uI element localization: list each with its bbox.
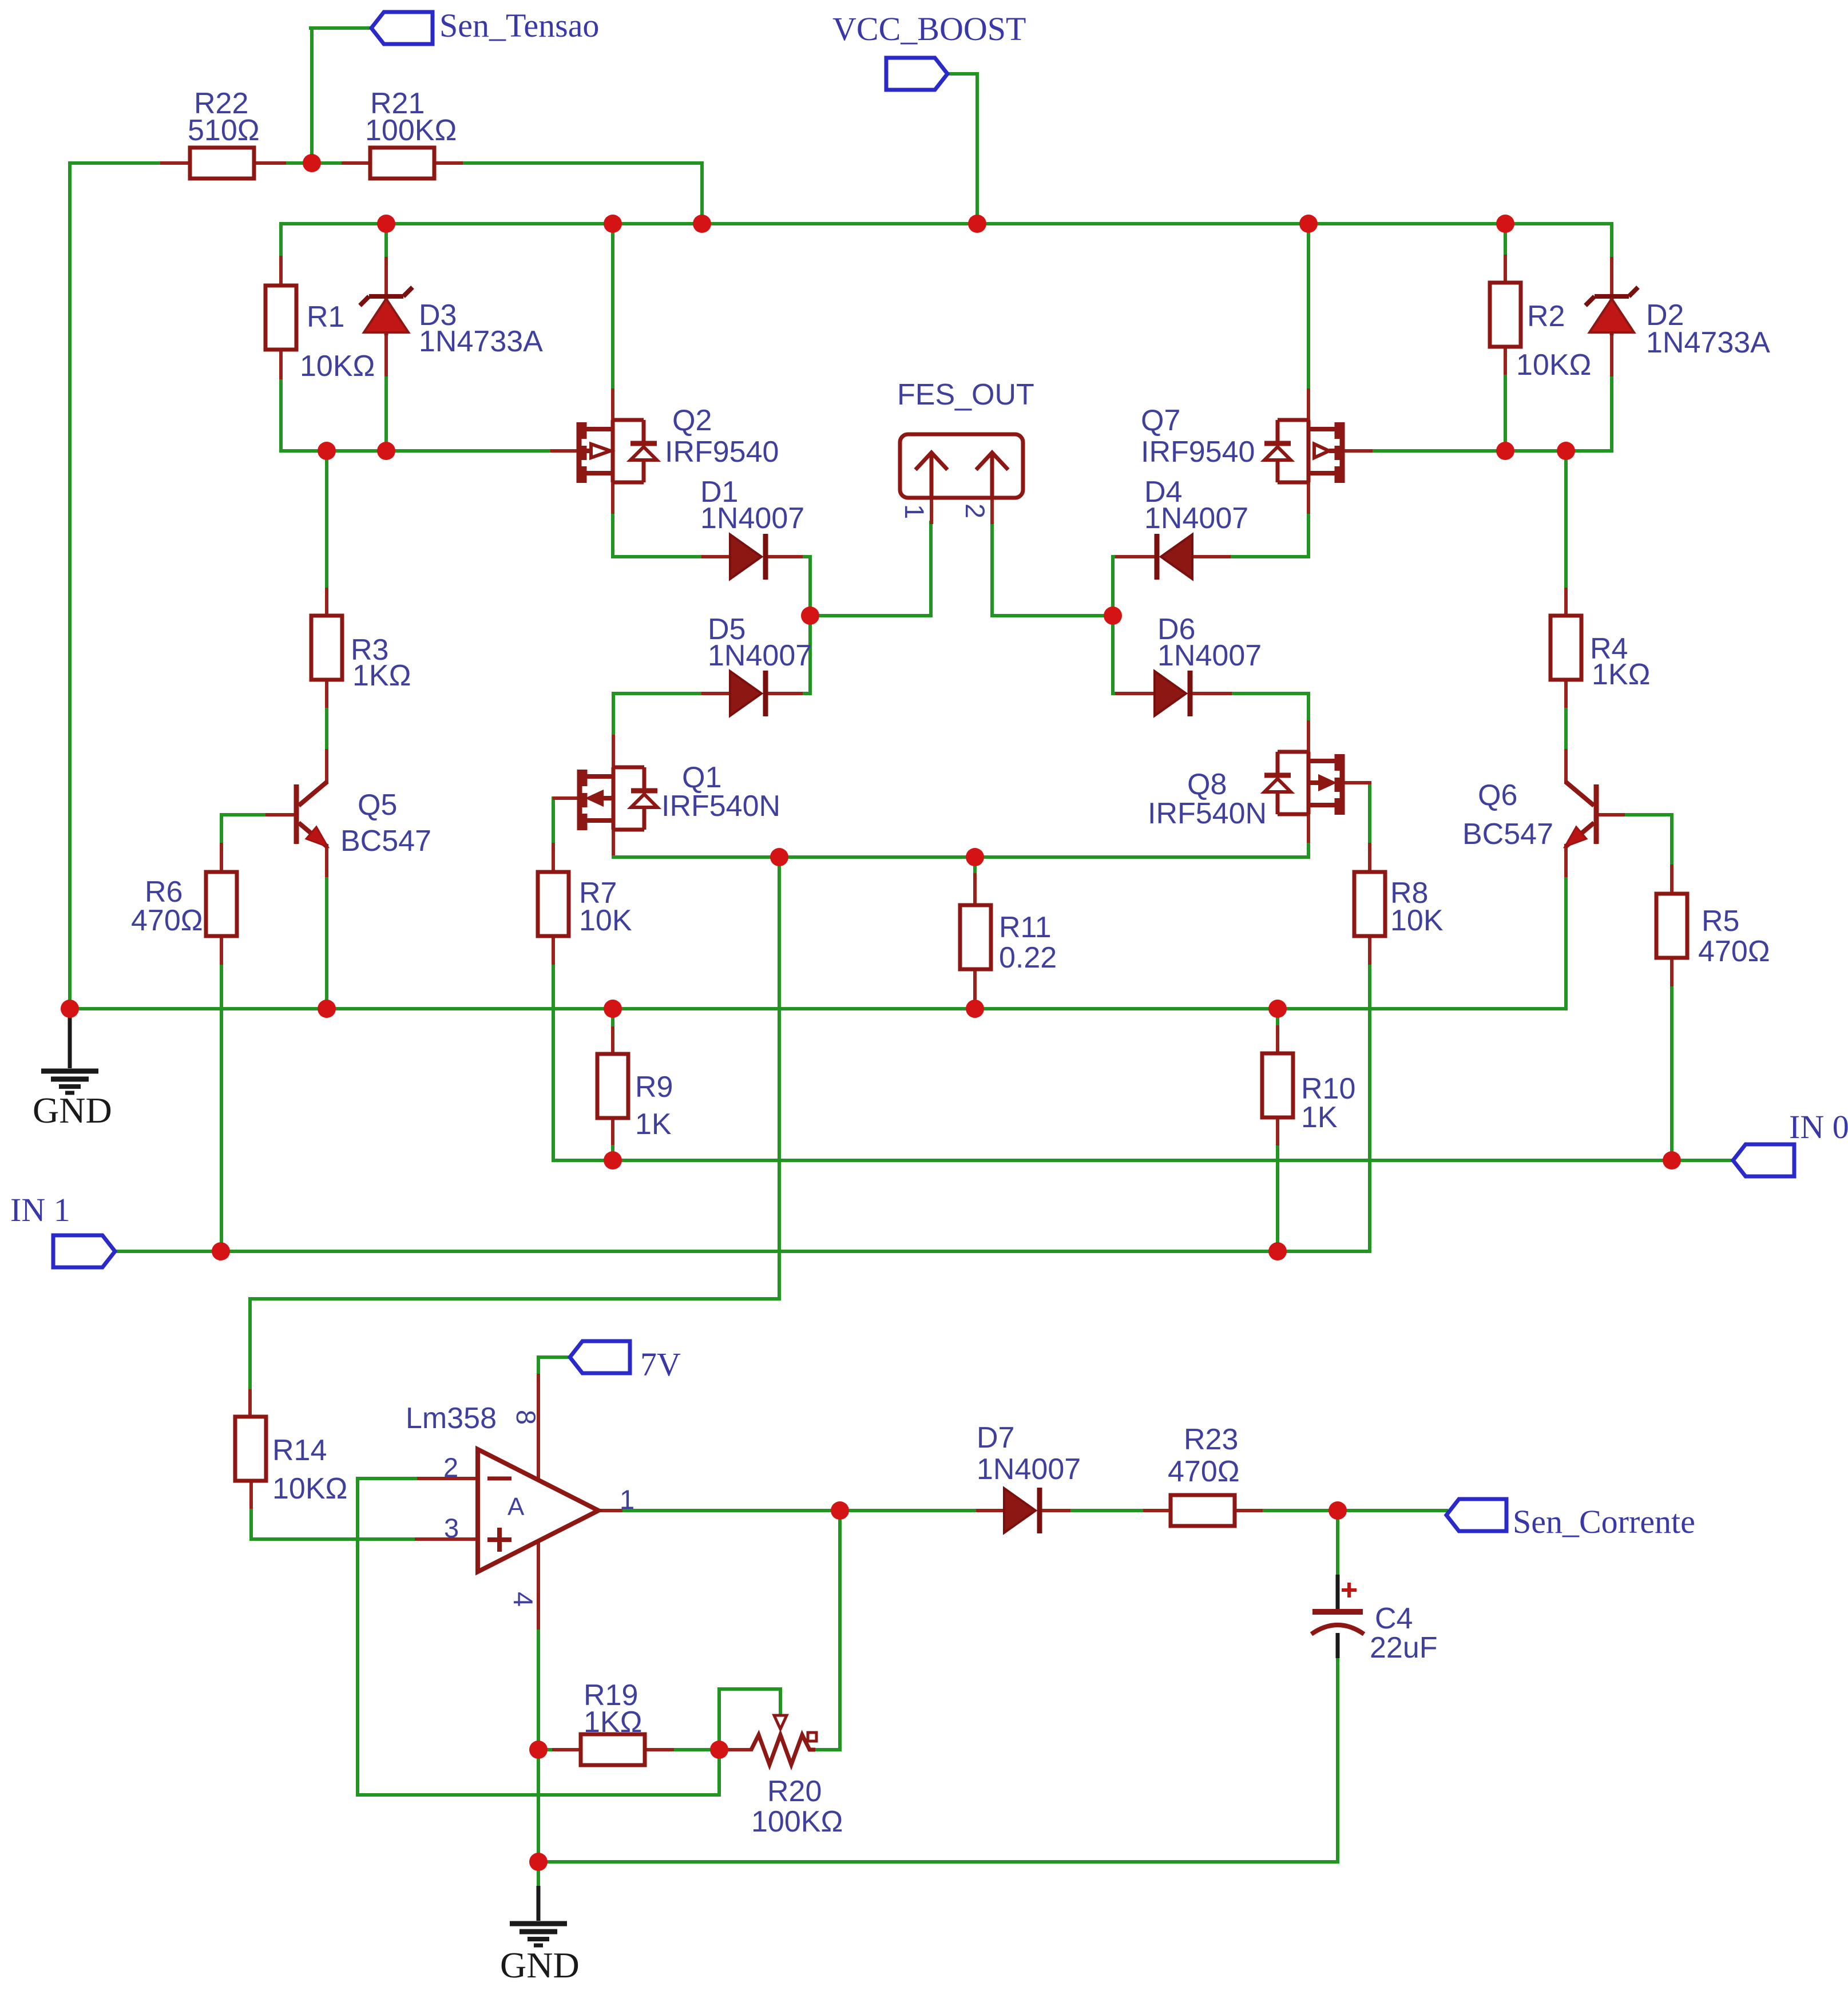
flag Sen_Corrente [1446,1499,1506,1531]
resistor R10 [1262,1053,1293,1117]
pin leads R8 [1368,845,1371,963]
resistor R21 [370,148,434,179]
svg-text:Q8: Q8 [1187,768,1227,801]
wire D6 cathode to Q8 drain [1192,693,1308,752]
flag IN 0 [1733,1144,1794,1176]
wire R22-R21 middle node [254,161,370,165]
wire IN0 rail [613,1159,1733,1162]
pin leads R22 [162,161,284,165]
wire Q5 base to R6 [221,815,267,871]
svg-text:1K: 1K [635,1108,672,1141]
resistor R19 [581,1734,645,1765]
node junction source bus sense [770,848,788,866]
wire R8 bottom riser [1368,936,1371,1251]
node B output right [1104,606,1122,625]
ground symbol bottom [510,1862,567,1945]
pin lead Q1 gate [554,796,577,800]
node junction gate rail R2 [1496,442,1514,460]
wire VCC_BOOST stub [947,74,977,224]
pin leads R7 [552,845,555,963]
wire D2 column [1610,224,1613,451]
pin leads R3 [325,589,328,706]
svg-text:510Ω: 510Ω [188,114,260,147]
pin leads Q1 [612,736,615,854]
svg-text:IRF9540: IRF9540 [1141,435,1255,469]
node junction GND bus R9 [604,1000,622,1018]
svg-text:R2: R2 [1527,300,1565,333]
node A output left [801,606,819,625]
node junction GND bus R10 [1268,1000,1287,1018]
transistor Q5 [296,782,328,847]
svg-text:Sen_Corrente: Sen_Corrente [1513,1503,1695,1540]
pin leads Q8 [1307,722,1310,841]
wire node B down to D6 [1113,616,1156,693]
ground symbol left [41,1009,98,1093]
wire C4 top [1336,1511,1339,1575]
svg-text:1KΩ: 1KΩ [584,1706,642,1739]
svg-text:VCC_BOOST: VCC_BOOST [832,10,1026,47]
node junction source bus R11 [966,848,984,866]
flag IN 1 [53,1235,115,1267]
pin leads R1 [279,257,283,378]
wire D1 cathode to node A [768,557,810,616]
node junction GND bottom [529,1853,548,1871]
pin leads R10 [1276,1027,1279,1144]
wire D4 cathode to node B [1113,557,1156,616]
node junction bus/Q7 [1299,215,1318,233]
node junction GND bus left [61,1000,79,1018]
svg-text:C4: C4 [1375,1602,1413,1635]
transistor Q6 [1565,782,1596,847]
node junction R19/R20 [710,1741,728,1759]
svg-text:4: 4 [508,1592,538,1607]
transistor Q8 [1264,752,1342,815]
svg-text:100KΩ: 100KΩ [365,114,457,147]
wire R14 bottom to pin3 [251,1480,417,1539]
wire sense tap down-left [250,857,779,1418]
svg-text:1N4007: 1N4007 [700,502,804,535]
wire R3 column [325,451,328,782]
svg-text:10K: 10K [1390,904,1443,937]
wire left gate rail [281,449,579,453]
diode D5 [730,671,766,716]
pin lead Q8 gate [1346,781,1370,784]
pin leads R23 [1145,1509,1261,1512]
svg-text:Q7: Q7 [1141,404,1180,437]
pin leads R11 [973,875,977,999]
pin lead R20 left [719,1748,751,1751]
svg-text:Lm358: Lm358 [406,1402,497,1435]
node junction output feedback [831,1501,849,1520]
wire Q5 emitter to GND bus [325,846,328,1009]
pin leads Q5 [267,751,327,875]
diode D7 [1004,1488,1040,1533]
svg-text:10KΩ: 10KΩ [300,350,375,383]
flag 7V [570,1341,630,1373]
svg-text:BC547: BC547 [340,824,431,858]
wire VCC top bus [281,222,1612,225]
zener diode D2 [1585,287,1638,335]
svg-text:10KΩ: 10KΩ [1516,348,1591,382]
svg-text:1N4007: 1N4007 [977,1453,1081,1486]
wire D5 anode to Q1 drain [613,693,730,767]
pin leads R14 [250,1391,251,1507]
wire R9 column [611,1009,614,1160]
svg-text:R20: R20 [767,1775,822,1808]
wire D4 anode to Q7 drain [1190,482,1308,557]
wire Sen_Tensao stub [311,28,371,163]
resistor R9 [597,1054,628,1118]
resistor R5 [1656,894,1687,958]
wire R22 left to GND column [70,161,189,165]
svg-text:1: 1 [620,1484,634,1515]
svg-text:8: 8 [511,1410,541,1425]
wire Q7 source column [1307,224,1310,420]
wire R21 right to bus drop [434,163,702,224]
svg-text:470Ω: 470Ω [1698,935,1770,968]
diode D6 [1155,671,1190,716]
svg-text:1N4007: 1N4007 [1144,502,1248,535]
resistor R22 [190,148,254,179]
connector FES_OUT [900,434,1023,498]
pin leads R21 [343,161,461,165]
svg-text:1N4733A: 1N4733A [419,325,543,358]
node junction IN0 R9 [604,1151,622,1170]
svg-text:IN 0: IN 0 [1789,1108,1848,1145]
pin lead Q7 gate [1346,449,1371,453]
wire R5 bottom to IN0 [1670,958,1673,1160]
svg-text:Q6: Q6 [1478,779,1517,812]
resistor R8 [1354,872,1385,936]
svg-text:FES_OUT: FES_OUT [897,378,1034,411]
svg-text:R5: R5 [1702,905,1739,938]
capacitor C4 [1311,1575,1364,1658]
zener diode D3 [360,287,413,335]
pin leads Q2 [611,390,614,512]
svg-text:D7: D7 [977,1421,1014,1454]
svg-text:3: 3 [444,1513,459,1543]
potentiometer R20 [751,1715,816,1765]
node junction bus/D3 [377,215,395,233]
wire node A to FES pin1 [810,522,931,616]
wire GND bus [70,1007,1566,1010]
wire C4 bottom [1336,1658,1339,1862]
svg-text:10KΩ: 10KΩ [272,1472,347,1505]
svg-text:1N4733A: 1N4733A [1646,326,1770,359]
pin leads D1 [703,555,801,558]
op-amp U1 LM358 [478,1449,598,1572]
svg-text:1N4007: 1N4007 [1157,639,1262,672]
wire R8 top to Q8 gate [1346,783,1370,871]
wire Q2 source column [611,224,614,420]
wire D5 cathode up to node A [768,616,810,693]
node junction Sen_Corrente C4 [1329,1501,1347,1520]
svg-text:GND: GND [33,1090,112,1131]
resistor R6 [206,872,237,936]
pin leads D4 [1117,555,1229,558]
node junction gate rail R4 [1557,442,1575,460]
wire bottom GND rail [538,1860,1338,1864]
wire Q6 emitter to GND bus [1564,846,1568,1009]
wire Q1 gate to R7 [553,798,577,871]
wire output to R20 right [815,1511,840,1750]
pin leads R19 [554,1748,672,1751]
svg-text:R23: R23 [1184,1423,1238,1456]
svg-text:IRF540N: IRF540N [1148,797,1267,830]
svg-text:10K: 10K [579,904,632,937]
node junction R19 left [529,1741,548,1759]
wire pin4 to GND node [537,1628,540,1862]
svg-text:1K: 1K [1301,1101,1338,1134]
svg-text:IRF540N: IRF540N [661,790,780,823]
wire opamp output rail [618,1509,1446,1512]
svg-text:0.22: 0.22 [999,941,1057,974]
diode D1 [730,534,766,580]
wire R6 bottom to IN1 [220,936,223,1251]
pin leads D2 [1610,259,1613,375]
pin leads R4 [1564,589,1568,706]
svg-text:100KΩ: 100KΩ [751,1805,843,1838]
svg-text:IRF9540: IRF9540 [665,435,779,469]
resistor R2 [1490,283,1521,347]
transistor Q7 [1264,420,1342,483]
transistor Q2 [579,420,657,483]
transistor Q1 [580,767,657,830]
node junction GND bus R11 [966,1000,984,1018]
svg-text:470Ω: 470Ω [131,904,203,937]
wire IN1 rail [115,1250,1370,1253]
pin leads D5 [703,692,801,695]
resistor R1 [265,286,296,350]
resistor R3 [311,616,342,680]
pin leads D3 [384,259,388,375]
svg-text:1: 1 [899,504,930,519]
pin leads D7 [978,1509,1069,1512]
svg-text:Q2: Q2 [672,404,712,437]
wire R10 column [1276,1009,1279,1251]
resistor R11 [960,905,991,969]
svg-text:2: 2 [960,504,990,518]
wire Q2 drain to D1 [613,482,730,557]
wire left GND column [68,163,72,1008]
wire R4 column [1564,451,1568,782]
node junction GND bus Q5 [318,1000,336,1018]
resistor R7 [538,872,569,936]
pin leads R9 [611,1028,614,1143]
pin leads D6 [1117,692,1230,695]
resistor R23 [1171,1495,1235,1526]
wire R7 bottom to IN0 corner [553,936,613,1160]
wire FES pin2 to node B [992,522,1113,616]
node junction bus/VCC flag [968,215,986,233]
svg-text:1KΩ: 1KΩ [1592,658,1650,691]
node junction bus/Q2 [604,215,622,233]
svg-text:R11: R11 [999,911,1052,944]
diode D4 [1157,534,1192,580]
wire 7V flag stub [538,1357,570,1379]
pin leads FES_OUT [931,498,992,522]
pin lead Q2 gate [552,449,577,453]
resistor R4 [1550,616,1581,680]
svg-text:IN 1: IN 1 [10,1191,70,1228]
wire R2 column [1504,224,1507,451]
svg-text:7V: 7V [640,1346,681,1383]
node junction IN1 R6 [212,1242,230,1260]
pin leads Q7 [1307,390,1310,512]
svg-text:1KΩ: 1KΩ [352,659,411,692]
node junction bus/R2 [1496,215,1514,233]
node junction gate rail D3 [377,442,395,460]
svg-text:GND: GND [500,1945,580,1985]
svg-text:R14: R14 [272,1434,327,1467]
svg-text:Sen_Tensao: Sen_Tensao [439,7,599,44]
node junction bus/R21 [693,215,711,233]
svg-text:R9: R9 [635,1071,673,1104]
wire R19 left node [538,1748,581,1751]
svg-text:2: 2 [443,1452,458,1482]
node junction IN1 R10 [1268,1242,1287,1260]
resistor R14 [235,1417,266,1481]
node junction R22/R21/Sen_Tensao [303,154,321,172]
wire R19 right to R20 node [672,1748,719,1751]
svg-text:470Ω: 470Ω [1168,1455,1240,1488]
pin leads op-amp U1 [417,1375,621,1628]
flag VCC_BOOST [886,58,947,90]
wire right gate rail [1346,449,1612,453]
svg-text:Q5: Q5 [358,788,397,822]
node junction IN0 R5 [1663,1151,1681,1170]
wire pin2 feedback column [358,1478,417,1795]
svg-text:A: A [507,1493,525,1521]
wire R11 column [973,857,977,1009]
wire R1 column [279,224,283,451]
svg-text:BC547: BC547 [1462,818,1553,851]
pin leads Q6 [1566,751,1623,875]
wire source bus Q1-Q8 [613,815,1308,857]
wire R20 wiper [719,1689,780,1750]
flag Sen_Tensao [371,12,433,44]
pin leads R2 [1504,256,1507,373]
svg-text:22uF: 22uF [1370,1631,1438,1664]
svg-text:1N4007: 1N4007 [708,639,812,672]
wire D3 column [384,224,388,451]
pin leads R6 [220,845,223,963]
svg-text:R1: R1 [307,300,344,334]
wire feedback rail to R19-R20 node [358,1750,719,1795]
pin leads R5 [1670,866,1673,985]
wire Q6 base to R5 [1623,815,1672,893]
node junction gate rail R3 [318,442,336,460]
